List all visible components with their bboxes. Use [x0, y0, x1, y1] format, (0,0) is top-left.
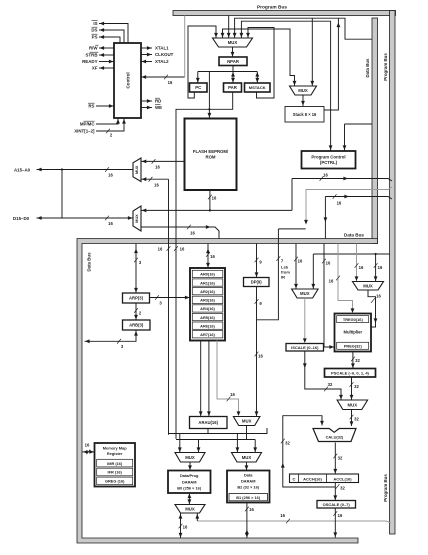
- memory mapped registers (IMR/IFR/GREG): [95, 443, 136, 487]
- program control PCTRL: [302, 151, 356, 169]
- wire 16-bit into control (from program bus tap): [141, 76, 185, 78]
- daram B2/B1: [227, 471, 270, 503]
- wire data bus to DP: [256, 244, 258, 278]
- wire mux U5 output to CALU: [351, 410, 353, 427]
- mux U3 (ISCALE input mux): [292, 289, 319, 298]
- svg-text:Program Control: Program Control: [311, 155, 345, 160]
- wire B0 to mux U9 (bidirectional): [188, 493, 190, 504]
- svg-text:16: 16: [212, 196, 217, 201]
- slash 9 on DP output: [255, 299, 259, 304]
- wire junction line (program address): [198, 71, 257, 73]
- svg-text:16: 16: [108, 221, 113, 226]
- svg-text:16: 16: [338, 513, 343, 518]
- junction dot flash line: [209, 209, 211, 211]
- wire ARP to ARB: [135, 303, 137, 320]
- wire PCTRL row horizontal to data bus riser: [345, 123, 373, 125]
- wire mux U9 to data bus bottom (left): [180, 513, 182, 538]
- svg-text:16: 16: [337, 201, 342, 206]
- svg-text:32: 32: [328, 382, 333, 387]
- mux U5 (CALU input mux): [337, 400, 368, 410]
- svg-text:Data Bus: Data Bus: [344, 233, 364, 238]
- wire program bus tap to mux U1 input 3: [228, 16, 230, 38]
- svg-text:XTAL2: XTAL2: [155, 59, 169, 64]
- slash 32 CALU out: [333, 454, 337, 459]
- register PC: [190, 83, 208, 92]
- svg-text:TREG0(16): TREG0(16): [343, 317, 364, 322]
- slash 16 OSCALE out: [333, 511, 337, 516]
- wire AR file to mux U7 (gray): [217, 341, 239, 414]
- signal RD: [141, 100, 152, 102]
- wire DP output down to mux U7: [256, 287, 258, 417]
- wire ARAU output to H1: [207, 429, 209, 434]
- wire flash line up to row 1: [291, 179, 293, 211]
- wire 16 to program bus (row 3): [325, 197, 392, 200]
- slash 3 on ARB wire: [117, 339, 121, 344]
- slash 16 mux U4 output: [371, 298, 375, 303]
- mux U4 (multiplier input mux): [353, 282, 384, 291]
- svg-text:16: 16: [154, 183, 159, 188]
- signal XTAL2: [141, 61, 152, 63]
- svg-text:XINT[1–2]: XINT[1–2]: [74, 129, 95, 134]
- slash 32 PREG out: [351, 357, 355, 362]
- svg-text:PSCALE (–6, 0, 1, 4): PSCALE (–6, 0, 1, 4): [331, 370, 369, 375]
- svg-text:16: 16: [359, 265, 364, 270]
- signal CLKOUT: [141, 54, 152, 56]
- svg-text:CLKOUT: CLKOUT: [155, 52, 174, 57]
- svg-text:16: 16: [190, 231, 195, 236]
- svg-text:MUX: MUX: [185, 506, 195, 511]
- wire PSCALE output to mux U5: [351, 377, 353, 400]
- slash 16 on ARfile wire: [206, 252, 210, 257]
- svg-text:ARP(3): ARP(3): [129, 296, 144, 301]
- svg-text:MUX: MUX: [300, 291, 310, 296]
- svg-text:16: 16: [280, 513, 285, 518]
- wire data bus to PREG (write): [324, 244, 334, 348]
- wire accumulator to OSCALE: [334, 483, 336, 501]
- svg-text:STRB: STRB: [86, 53, 98, 58]
- slash 3 on ARP-ARfile wire: [155, 295, 159, 300]
- slash 16 on PREG write: [322, 259, 326, 264]
- mux U6 (B0 address mux): [175, 453, 205, 463]
- svg-text:IS: IS: [93, 21, 97, 26]
- svg-text:CALU(32): CALU(32): [326, 435, 344, 440]
- data bus ring (frame around CPU section): [77, 239, 378, 544]
- svg-text:Data/Prog: Data/Prog: [180, 473, 199, 478]
- wire segment 7LSB collector: [278, 228, 305, 230]
- signal XTAL1: [141, 47, 152, 49]
- svg-text:AR3(16): AR3(16): [200, 298, 215, 303]
- svg-text:B2 (32 × 16): B2 (32 × 16): [237, 485, 259, 490]
- wire loop to right mux input (via top): [223, 29, 295, 86]
- wire mux U2 input from wire A: [311, 18, 313, 85]
- svg-text:MP/MC: MP/MC: [80, 122, 95, 127]
- svg-text:Data: Data: [244, 472, 253, 477]
- svg-text:(PCTRL): (PCTRL): [320, 160, 338, 165]
- wire B stack to top wire: [324, 18, 338, 110]
- svg-text:16: 16: [323, 173, 328, 178]
- wire XMIF upper input 1 (from flash): [142, 160, 185, 162]
- wire mux U4 output to multiplier: [368, 290, 376, 327]
- slash 16 on row-3 wire: [333, 194, 337, 199]
- wire 7 LSB from IR: [257, 229, 279, 320]
- svg-text:MUX: MUX: [185, 455, 195, 460]
- scaler PSCALE: [325, 369, 376, 378]
- signal DS (with wire into control top): [99, 30, 124, 43]
- wire gray program-bus tap down to control wire: [184, 16, 186, 78]
- wire gray program-bus to IR row: [306, 187, 392, 222]
- svg-text:16: 16: [85, 443, 90, 448]
- signal WE: [141, 107, 152, 109]
- svg-text:READY: READY: [82, 59, 97, 64]
- svg-text:B1 (256 × 16): B1 (256 × 16): [236, 495, 261, 500]
- slash 16 on long vertical 176: [174, 246, 178, 251]
- wire program bus row to mux U3 input 2: [313, 253, 390, 255]
- mux U2 (stack mux, top right): [290, 86, 317, 95]
- accumulator C/ACCH/ACCL: [290, 474, 359, 483]
- slash 16 on data address: [255, 352, 259, 357]
- svg-text:MSTACK: MSTACK: [249, 85, 266, 90]
- signal IS (with wire into control top): [99, 24, 128, 44]
- slash 2 on ARP-ARB wire: [134, 308, 138, 313]
- svg-text:Program Bus: Program Bus: [383, 474, 388, 502]
- svg-text:AR0(16): AR0(16): [200, 272, 215, 277]
- mux U7 (data address mux): [233, 417, 260, 426]
- svg-text:FLASH EEPROM/: FLASH EEPROM/: [193, 149, 229, 154]
- svg-text:AR7(16): AR7(16): [200, 332, 215, 337]
- program bus wire (bottom gray wire): [197, 521, 391, 523]
- wire data bus to memory map registers (bidirectional): [83, 451, 95, 453]
- junction dot program row: [375, 253, 377, 255]
- svg-text:32: 32: [355, 358, 360, 363]
- slash 3 on ARP wire: [134, 258, 138, 263]
- slash 32 on feedback: [281, 439, 285, 444]
- svg-text:MUX: MUX: [228, 40, 238, 45]
- wire mux U7 output to H2: [246, 426, 248, 440]
- signal R/W: [99, 47, 114, 49]
- wire data bus to mux U3 input 1: [295, 244, 297, 289]
- flash eeprom/rom: [185, 119, 237, 191]
- wire H2 to mux U8 input: [254, 440, 256, 453]
- svg-text:16: 16: [249, 507, 254, 512]
- slash 16 XMIF lower input 2: [187, 225, 191, 230]
- signal XF: [99, 67, 114, 69]
- svg-text:32: 32: [354, 384, 359, 389]
- wire NPAR to junction line: [232, 66, 234, 72]
- svg-text:Multiplier: Multiplier: [343, 330, 362, 335]
- svg-text:IMR (16): IMR (16): [107, 461, 123, 466]
- wire mux U3 output to ISCALE (gray): [304, 298, 306, 341]
- slash 16 XMIF upper input 1: [152, 159, 156, 164]
- wire AR file to ARAU (1): [200, 341, 202, 417]
- slash 16 on TREG0 wire: [336, 276, 340, 281]
- register ARP: [123, 293, 150, 303]
- wire H1 to mux U6 input: [179, 434, 181, 453]
- alu CALU: [313, 429, 356, 442]
- slash 32 mux U5 out: [350, 415, 354, 420]
- wire mux U8 to B2: [246, 462, 248, 470]
- svg-text:32: 32: [285, 441, 290, 446]
- slash 9 on DP input: [255, 258, 259, 263]
- svg-text:32: 32: [354, 417, 359, 422]
- slash 16 on long vertical 168: [167, 246, 171, 251]
- slash 16 mux U9 wire: [179, 524, 183, 529]
- register DP: [244, 278, 270, 287]
- wire AR file to ARAU (2): [208, 341, 210, 417]
- svg-text:PC: PC: [195, 85, 201, 90]
- svg-text:Stack 8 × 16: Stack 8 × 16: [293, 112, 317, 117]
- slash 16 on AR-mux wire: [227, 397, 231, 402]
- svg-text:ISCALE (0–16): ISCALE (0–16): [291, 345, 319, 350]
- svg-text:Control: Control: [126, 72, 131, 88]
- register MSTACK: [245, 83, 271, 92]
- signal RS: [96, 105, 114, 107]
- svg-text:16: 16: [230, 392, 235, 397]
- wire PC loop to mux U1 input 1: [188, 26, 216, 98]
- svg-text:Data Bus: Data Bus: [87, 252, 92, 272]
- svg-text:RD: RD: [155, 99, 161, 104]
- svg-text:MUX: MUX: [135, 214, 139, 223]
- svg-text:ARAU(16): ARAU(16): [198, 420, 218, 425]
- mux XMIF upper (address out): [133, 158, 141, 182]
- mux XMIF lower (data): [133, 206, 141, 231]
- svg-text:32: 32: [338, 456, 343, 461]
- signal READY: [99, 61, 114, 63]
- wire data bus to mux U4 input 1 (gray): [356, 244, 358, 282]
- svg-text:AR5(16): AR5(16): [200, 315, 215, 320]
- svg-text:16: 16: [378, 265, 383, 270]
- junction dot A/D vertical: [61, 168, 63, 170]
- wire MSTACK loop to mux U1 input 6: [248, 28, 274, 99]
- wire flash output down: [209, 190, 211, 210]
- svg-text:AR2(16): AR2(16): [200, 289, 215, 294]
- wire H1 horizontal: [169, 428, 268, 434]
- wire mux U1 output to NPAR: [232, 47, 234, 57]
- wire B1 output down to data bus bottom: [246, 503, 248, 539]
- slash 16 on A15-A0: [105, 167, 109, 172]
- svg-text:Program Bus: Program Bus: [257, 5, 287, 11]
- wire 16 to program bus (row 1): [292, 179, 392, 182]
- wire mux U2 output to stack: [302, 95, 304, 106]
- control block: [114, 43, 141, 118]
- slash 32 ISCALE out: [324, 387, 328, 392]
- slash 16 mux U4 input 1: [355, 263, 359, 268]
- svg-text:DP(9): DP(9): [251, 280, 263, 285]
- scaler OSCALE: [317, 501, 356, 509]
- slash 16 on D15-D0: [105, 216, 109, 221]
- register ARB: [123, 320, 151, 330]
- wire PREG to PSCALE: [352, 352, 354, 369]
- wire long vertical (XMIF-2 to DARAM mux H1): [168, 179, 170, 435]
- wire XMIF upper input 2: [142, 178, 169, 180]
- svg-text:MUX: MUX: [363, 283, 373, 288]
- wire row-3 branch down to data bus ring: [324, 197, 326, 239]
- wire program bus wire to mux U9 (right): [196, 513, 198, 521]
- svg-text:PAR: PAR: [228, 85, 238, 90]
- wire A-D vertical connector: [61, 170, 63, 219]
- wire program row to mux U4 input 2: [375, 254, 377, 281]
- slash 16 XMIF upper input 2: [149, 177, 153, 182]
- svg-text:16: 16: [155, 165, 160, 170]
- svg-text:Register: Register: [107, 451, 123, 456]
- program bus (right vertical bus bar): [390, 11, 396, 535]
- svg-text:ROM: ROM: [205, 155, 215, 160]
- svg-text:D15–D0: D15–D0: [13, 216, 30, 221]
- slash 16 memmap wire: [86, 450, 90, 455]
- wire mux U6 to B0: [189, 462, 191, 470]
- svg-text:MUX: MUX: [348, 402, 358, 407]
- svg-text:AR4(16): AR4(16): [200, 306, 215, 311]
- wire data bus to AR register file: [207, 244, 209, 268]
- svg-text:ARB(3): ARB(3): [129, 323, 144, 328]
- svg-text:Program Bus: Program Bus: [383, 53, 388, 81]
- svg-text:XTAL1: XTAL1: [155, 46, 169, 51]
- svg-text:A15–A0: A15–A0: [14, 167, 31, 172]
- wire D15-D0 data line: [37, 217, 134, 219]
- svg-text:16: 16: [180, 247, 185, 252]
- svg-text:16: 16: [326, 261, 331, 266]
- slash 32 PSCALE out: [350, 382, 354, 387]
- slash 16 on flash output: [208, 195, 212, 200]
- svg-text:RS: RS: [88, 104, 94, 109]
- svg-text:DARAM: DARAM: [182, 479, 196, 484]
- wire flash line to XMIF mux: [142, 209, 293, 211]
- svg-text:16: 16: [183, 525, 188, 530]
- svg-text:XF: XF: [92, 66, 98, 71]
- wire H2 to mux U6 input: [198, 440, 200, 453]
- svg-text:WE: WE: [155, 105, 162, 110]
- wire junction to PAR (bidirectional): [232, 72, 234, 83]
- svg-text:16: 16: [376, 294, 381, 299]
- svg-text:IR: IR: [281, 274, 285, 279]
- svg-text:B0 (256 × 16): B0 (256 × 16): [177, 486, 202, 491]
- svg-text:PREG(32): PREG(32): [344, 344, 363, 349]
- wire down into PCTRL top: [344, 124, 346, 151]
- multiplier block TREG0/Multiplier/PREG: [335, 314, 372, 352]
- mux U9 (B0 data mux): [175, 505, 205, 514]
- wire junction down to flash rom: [208, 72, 210, 119]
- register PAR: [224, 83, 242, 92]
- signal MP/MC: [96, 119, 118, 125]
- svg-text:MUX: MUX: [242, 419, 252, 424]
- wire A to data-bus riser (mux U1 input 4): [235, 18, 372, 39]
- register file AR0-AR7: [190, 268, 225, 341]
- wire A15-A0 address line: [37, 169, 134, 171]
- wire mux U3 input-2 drop: [312, 254, 314, 289]
- svg-text:DARAM: DARAM: [241, 479, 255, 484]
- slash 32 ACC out: [336, 484, 340, 489]
- wire H1 to mux U8 input: [236, 434, 238, 453]
- svg-text:16: 16: [168, 80, 173, 85]
- junction dot PAR wire: [208, 108, 210, 110]
- svg-text:16: 16: [108, 173, 113, 178]
- wire accumulator feedback to CALU: [283, 416, 336, 487]
- svg-text:16: 16: [258, 354, 263, 359]
- signal XINT[1-2]: [96, 119, 124, 132]
- daram B0: [168, 471, 211, 494]
- svg-text:Data Bus: Data Bus: [365, 58, 370, 78]
- svg-text:GREG (16): GREG (16): [105, 479, 125, 484]
- stack 8x16: [285, 107, 324, 123]
- svg-text:16: 16: [158, 247, 163, 252]
- svg-text:16: 16: [210, 254, 215, 259]
- svg-text:ACCH(16): ACCH(16): [303, 476, 322, 481]
- svg-text:MUX: MUX: [242, 455, 252, 460]
- wire junction to MSTACK (bidirectional): [256, 72, 258, 83]
- svg-text:OSCALE (0–7): OSCALE (0–7): [323, 502, 351, 507]
- svg-text:DS: DS: [91, 28, 97, 33]
- mux U8 (B1/B2 address mux): [232, 453, 262, 463]
- svg-text:MUX: MUX: [135, 165, 139, 174]
- wire ARP to AR register file: [150, 297, 190, 299]
- slash 16 on row-1 wire: [320, 176, 324, 181]
- wire data bus to ARP: [135, 244, 137, 293]
- wire long vertical (PAR/XMIF to DARAM mux H2): [176, 92, 233, 439]
- data bus (right vertical riser bar): [372, 18, 378, 244]
- svg-text:16: 16: [298, 259, 303, 264]
- wire CALU to accumulator: [334, 443, 336, 474]
- wire data bus to TREG0 (gray): [338, 244, 353, 312]
- slash 16 mux U3 input: [294, 257, 298, 262]
- slash 7 on IR wire: [277, 256, 281, 261]
- mux U1 (program address mux, top): [213, 38, 253, 47]
- wire XMIF lower input 2 to ring: [141, 227, 219, 239]
- svg-text:ACCL(16): ACCL(16): [333, 476, 352, 481]
- svg-text:AR1(16): AR1(16): [200, 280, 215, 285]
- svg-text:PS: PS: [92, 35, 98, 40]
- program bus (top horizontal bus bar): [173, 11, 396, 16]
- slash 16 B1 out: [245, 507, 249, 512]
- wire H2 horizontal: [176, 439, 255, 441]
- register NPAR: [219, 57, 247, 66]
- signal PS (with wire into control top): [99, 37, 120, 43]
- svg-text:MUX: MUX: [298, 88, 308, 93]
- svg-text:IFR (16): IFR (16): [108, 470, 123, 475]
- svg-text:C: C: [293, 476, 296, 481]
- wire OSCALE output down to data bus bottom: [334, 508, 336, 538]
- wire junction to PC: [197, 72, 199, 83]
- svg-text:32: 32: [340, 486, 345, 491]
- svg-text:16: 16: [329, 279, 334, 284]
- scaler ISCALE: [286, 344, 324, 352]
- arau ARAU(16): [190, 417, 228, 429]
- wire ARB to data bus (left): [85, 331, 137, 342]
- svg-text:R/W: R/W: [89, 46, 98, 51]
- wire ISCALE output to mux U5: [305, 351, 341, 400]
- wire to PCTRL (mux U1 input 5): [241, 21, 330, 150]
- signal STRB: [99, 54, 114, 56]
- slash 16 on bottom gray wire: [286, 519, 290, 524]
- svg-text:AR6(16): AR6(16): [200, 323, 215, 328]
- svg-text:NPAR: NPAR: [227, 59, 240, 64]
- slash 16 mux U4 input 2: [374, 263, 378, 268]
